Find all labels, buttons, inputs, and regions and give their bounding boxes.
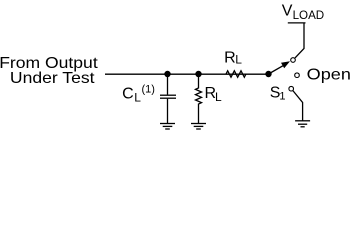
svg-text:C: C [122,86,134,103]
svg-text:(1): (1) [142,84,155,96]
svg-text:L: L [134,91,141,105]
svg-text:R: R [224,49,236,66]
svg-text:L: L [215,90,222,104]
svg-text:L: L [235,53,242,67]
svg-text:Open: Open [307,67,351,84]
svg-text:LOAD: LOAD [293,10,325,22]
svg-text:V: V [282,3,293,20]
svg-text:Under Test: Under Test [10,70,95,87]
svg-text:1: 1 [279,91,285,103]
